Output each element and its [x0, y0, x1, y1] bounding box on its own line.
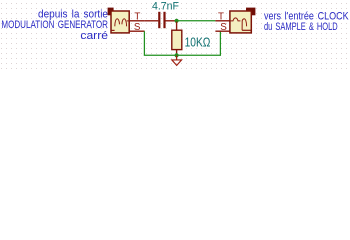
pin S of J1 — [130, 30, 145, 32]
pin T of J1 — [130, 20, 145, 22]
ground — [172, 55, 182, 65]
wire (left S drop + bottom bus + right S drop) — [144, 31, 220, 55]
connector J2 (jack, right) — [230, 8, 256, 33]
svg-text:du SAMPLE & HOLD: du SAMPLE & HOLD — [264, 21, 338, 33]
svg-text:T: T — [134, 11, 140, 22]
pin S of J2 — [215, 30, 229, 32]
junction (top node) — [175, 19, 179, 23]
svg-text:4.7nF: 4.7nF — [152, 0, 179, 12]
svg-text:10KΩ: 10KΩ — [185, 35, 211, 50]
svg-text:T: T — [218, 11, 224, 22]
pin T of J2 — [215, 20, 229, 22]
resistor R1 10KΩ — [172, 22, 182, 56]
capacitor C1 4.7nF — [145, 12, 177, 28]
svg-text:carré: carré — [80, 30, 108, 42]
svg-text:S: S — [134, 22, 141, 33]
wire (top, junction to J2.T) — [177, 20, 216, 22]
junction (bottom node) — [175, 53, 179, 57]
connector J1 (jack, left) — [108, 8, 130, 33]
svg-text:S: S — [220, 22, 227, 33]
